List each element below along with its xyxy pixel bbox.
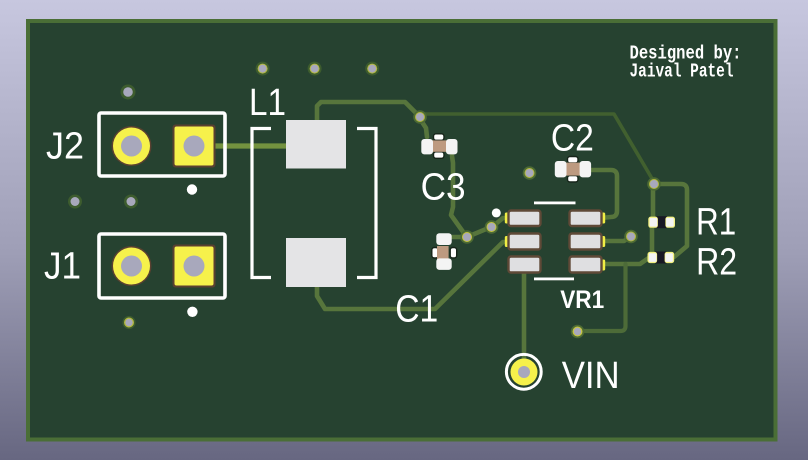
via near C3 (420,117) [413,110,427,124]
wire VR1 pin6 to R2 left [601,257,650,264]
test point VIN pad [511,359,538,386]
svg-text:Jaival Patel: Jaival Patel [630,61,734,83]
via right of VR1 (631,236) [624,230,638,244]
wire L1 top pad up and right to via(420,117) [317,102,419,124]
connector J2 pads [112,125,216,168]
via near C1 (467,237) [460,230,474,244]
via top row 2 [308,62,322,76]
wire VR1 pin5 to via(631,236) [601,237,630,241]
wire via(467,237) to via(491,227) [467,227,491,237]
wire via(420,117) to C3 top pad [420,119,427,137]
via near VR1 pin1 (491,227) [485,220,499,234]
wire via(467,237) to C1 top cap [449,235,466,240]
via left pair 1 [68,195,82,209]
wire C3 bottom pad down to via(467,237) [451,156,466,236]
via below J1 [122,316,135,329]
op-amp U1 / regulator VR1 pads [505,211,605,273]
wire branch down to via(577,332) [580,264,626,331]
vias and holes [68,62,661,339]
wire J2 pad to L1 top pad [213,143,288,148]
connector J1 pads [112,245,216,288]
capacitor C2 [555,157,591,183]
via left of J2 top [121,85,136,100]
via left pair 2 [124,195,138,209]
inductor L1 silkscreen bracket left [252,129,271,278]
svg-text:R2: R2 [696,241,737,283]
wire R1 left to R2 left [650,222,655,255]
svg-text:C1: C1 [395,289,438,331]
svg-text:J2: J2 [46,126,84,168]
via top right (654,184) [647,177,661,191]
VR1 silkscreen line bottom [534,278,574,281]
svg-text:VIN: VIN [562,355,620,397]
via top row 1 [256,62,270,76]
via below VR1 (577,332) [571,325,585,339]
inductor L1 pads [286,120,346,287]
connector J1 silkscreen box [99,234,225,298]
VIN silkscreen ring [506,354,541,389]
J2 pin1 dot [187,184,197,194]
svg-text:C3: C3 [421,166,466,208]
via top row 3 [365,62,379,76]
via left of C2 (529,173) [523,166,537,180]
svg-text:L1: L1 [249,82,286,124]
svg-text:VR1: VR1 [560,286,604,314]
wire VR1 pin3 to VIN pad [522,270,527,360]
J1 pin1 dot [187,307,197,317]
wire via(654,184) right and down to R2 right [658,184,687,257]
wire L1 bottom pad to VR1 pin2 (long diagonal) [317,242,510,309]
wire C2 right to VR1 pin4 [588,170,617,218]
resistor R1 [648,216,675,228]
inductor L1 silkscreen bracket right [357,129,376,278]
VR1 silkscreen line top [534,202,576,205]
svg-text:C2: C2 [551,117,594,159]
wire via(491,227) to VR1 pin1 [492,218,510,227]
capacitor C1 [432,233,457,270]
wire via(654,184) to R1 left [651,188,656,220]
connector J2 silkscreen box [99,113,225,176]
VR1 pin1 dot [492,208,501,217]
svg-text:R1: R1 [696,202,736,244]
wire bottom-layer via(420,117) to via(654,184) [424,114,654,182]
resistor R2 [648,252,675,264]
capacitor C3 [421,134,457,159]
svg-text:J1: J1 [44,246,81,288]
